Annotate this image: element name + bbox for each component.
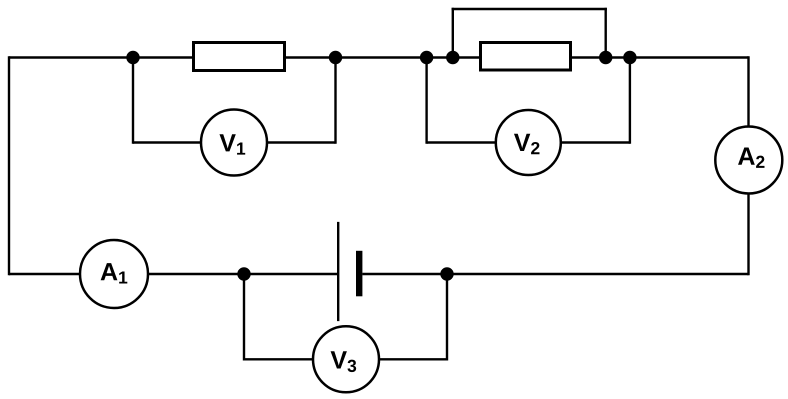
ammeter A2 bbox=[715, 127, 782, 194]
wire: R2 bypass right vertical bbox=[605, 8, 607, 58]
junction node: bottom bus / V3 branch left bbox=[237, 267, 250, 280]
voltmeter V1 bbox=[201, 110, 267, 176]
resistor R2 bbox=[481, 43, 571, 71]
resistor R1 bbox=[194, 43, 285, 71]
junction node: top bus / V2 branch right bbox=[623, 51, 636, 64]
wire: V3 branch right vertical bbox=[446, 274, 448, 361]
voltmeter V2 bbox=[496, 110, 561, 175]
junction node: top bus / V1 branch left bbox=[126, 51, 139, 64]
junction node: bottom bus / V3 branch right bbox=[440, 267, 453, 280]
wire: bottom bus left of battery bbox=[9, 273, 338, 275]
voltmeter V3 bbox=[313, 326, 379, 392]
ammeter A1 bbox=[80, 240, 148, 308]
wire: V1 branch left vertical bbox=[132, 58, 134, 144]
wire: V2 branch right vertical bbox=[629, 58, 631, 144]
junction node: top bus / V2 branch left bbox=[420, 51, 433, 64]
battery cell: long positive plate bbox=[337, 222, 339, 321]
wire: V3 branch horizontal bbox=[244, 358, 447, 360]
wire: top bus from left corner to right corner bbox=[9, 56, 749, 58]
wire: V1 branch horizontal bbox=[133, 141, 336, 143]
wire: right vertical side bbox=[747, 56, 749, 275]
wire: bottom bus right of battery bbox=[362, 273, 748, 275]
wire: R2 bypass left vertical bbox=[452, 8, 454, 58]
wire: V3 branch left vertical bbox=[243, 274, 245, 361]
wire: left vertical side bbox=[8, 56, 10, 275]
wire: R2 bypass top horizontal bbox=[452, 8, 607, 10]
battery cell: short thick negative plate bbox=[356, 251, 362, 296]
junction node: top bus / V1 branch right bbox=[329, 51, 342, 64]
wire: V2 branch left vertical bbox=[425, 58, 427, 144]
junction node: top bus / bypass left bbox=[446, 51, 459, 64]
wire: V2 branch horizontal bbox=[427, 141, 630, 143]
wire: V1 branch right vertical bbox=[334, 58, 336, 144]
junction node: top bus / bypass right bbox=[599, 51, 612, 64]
